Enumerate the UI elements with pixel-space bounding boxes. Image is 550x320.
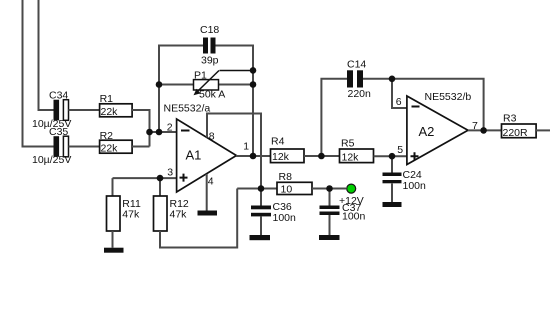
svg-text:C18: C18 [200, 24, 219, 36]
wire pin4 stub [206, 174, 208, 211]
capacitor C18 [200, 24, 219, 66]
wire C35 to R2 [69, 146, 100, 148]
svg-text:C34: C34 [49, 90, 68, 102]
svg-text:2: 2 [167, 121, 173, 133]
svg-text:220R: 220R [503, 127, 529, 139]
svg-text:10µ/25V: 10µ/25V [32, 154, 71, 166]
svg-text:47k: 47k [122, 209, 140, 221]
wire R8 to +12V node [312, 188, 346, 190]
svg-text:C35: C35 [49, 126, 68, 138]
wire R5 to pin5 [374, 155, 407, 157]
svg-text:100n: 100n [273, 212, 297, 224]
svg-text:NE5532/a: NE5532/a [164, 103, 211, 115]
wire R4 to R5 [304, 155, 340, 157]
ground under R11 [104, 248, 124, 253]
wire C18 right to feedback right vertical [216, 46, 254, 157]
wire C14 right to A2 output vertical [363, 79, 484, 131]
svg-text:22k: 22k [101, 106, 119, 118]
resistor R3 [502, 113, 537, 140]
svg-text:6: 6 [396, 96, 402, 108]
svg-text:5: 5 [397, 144, 403, 156]
wire node up to C14 row [321, 79, 347, 156]
wire pin2 row to op-amp [150, 131, 177, 133]
svg-text:C14: C14 [347, 59, 366, 71]
wire R3 to edge [536, 129, 550, 131]
wire input net 1 vertical into C34 [39, 0, 54, 110]
resistor R8 [277, 171, 312, 195]
potentiometer P1 [194, 70, 254, 101]
junction dots [146, 67, 487, 192]
wire A1 output to R4 [236, 155, 271, 157]
svg-text:12k: 12k [342, 151, 360, 163]
svg-text:10: 10 [281, 183, 293, 195]
svg-text:A2: A2 [419, 124, 435, 139]
svg-text:R5: R5 [341, 138, 355, 150]
ground under pin4 [198, 211, 218, 216]
svg-text:1: 1 [243, 140, 249, 152]
svg-text:50k A: 50k A [199, 89, 225, 101]
svg-text:22k: 22k [101, 142, 119, 154]
capacitor C24 [383, 156, 427, 202]
wire R12 bottom to supply row [160, 189, 237, 248]
wire feedback left vertical [159, 46, 203, 133]
svg-text:R2: R2 [100, 130, 114, 142]
svg-text:39p: 39p [201, 54, 219, 66]
wire P1 left [159, 84, 193, 86]
capacitor C34 [32, 90, 71, 131]
wire pin6 stub [392, 79, 407, 108]
resistor R5 [340, 138, 374, 164]
wire C34 to R1 [69, 109, 100, 111]
resistor R12 [154, 178, 189, 231]
svg-text:+12V: +12V [339, 195, 364, 207]
svg-text:P1: P1 [194, 70, 207, 82]
ground under C24 [383, 202, 402, 207]
resistor R1 [100, 93, 133, 118]
wire R2 right to junction [132, 146, 150, 148]
svg-text:3: 3 [167, 167, 173, 179]
capacitor C36 [251, 189, 296, 236]
wire pin3 row [113, 177, 177, 179]
svg-text:R3: R3 [503, 113, 517, 125]
wire A2 output [468, 129, 502, 131]
resistor R4 [271, 136, 305, 164]
ground under C36 [250, 235, 271, 240]
ground under C37 [319, 235, 340, 240]
svg-text:100n: 100n [342, 210, 366, 222]
op-amp A1 [164, 103, 250, 193]
svg-text:8: 8 [209, 131, 215, 143]
capacitor C35 [32, 126, 71, 166]
svg-text:4: 4 [208, 175, 214, 187]
wire R1 right down to junction [132, 110, 150, 147]
svg-text:47k: 47k [170, 209, 188, 221]
svg-text:NE5532/b: NE5532/b [425, 91, 472, 103]
wire input net 2 vertical into C35 [23, 0, 54, 147]
wire supply row left [237, 188, 277, 190]
svg-text:220n: 220n [348, 88, 372, 100]
resistor R2 [100, 130, 133, 155]
resistor R11 [107, 178, 141, 248]
capacitor C14 [347, 59, 371, 101]
svg-text:R1: R1 [100, 93, 114, 105]
svg-text:R8: R8 [279, 171, 293, 183]
+12V supply node [339, 184, 364, 207]
wire P1 right [218, 84, 253, 86]
wire pin8 supply [207, 114, 261, 189]
svg-text:100n: 100n [403, 180, 427, 192]
svg-text:R4: R4 [271, 136, 285, 148]
op-amp A2 [396, 91, 478, 165]
svg-text:12k: 12k [272, 151, 290, 163]
capacitor C37 [320, 189, 366, 236]
svg-text:A1: A1 [186, 148, 202, 163]
